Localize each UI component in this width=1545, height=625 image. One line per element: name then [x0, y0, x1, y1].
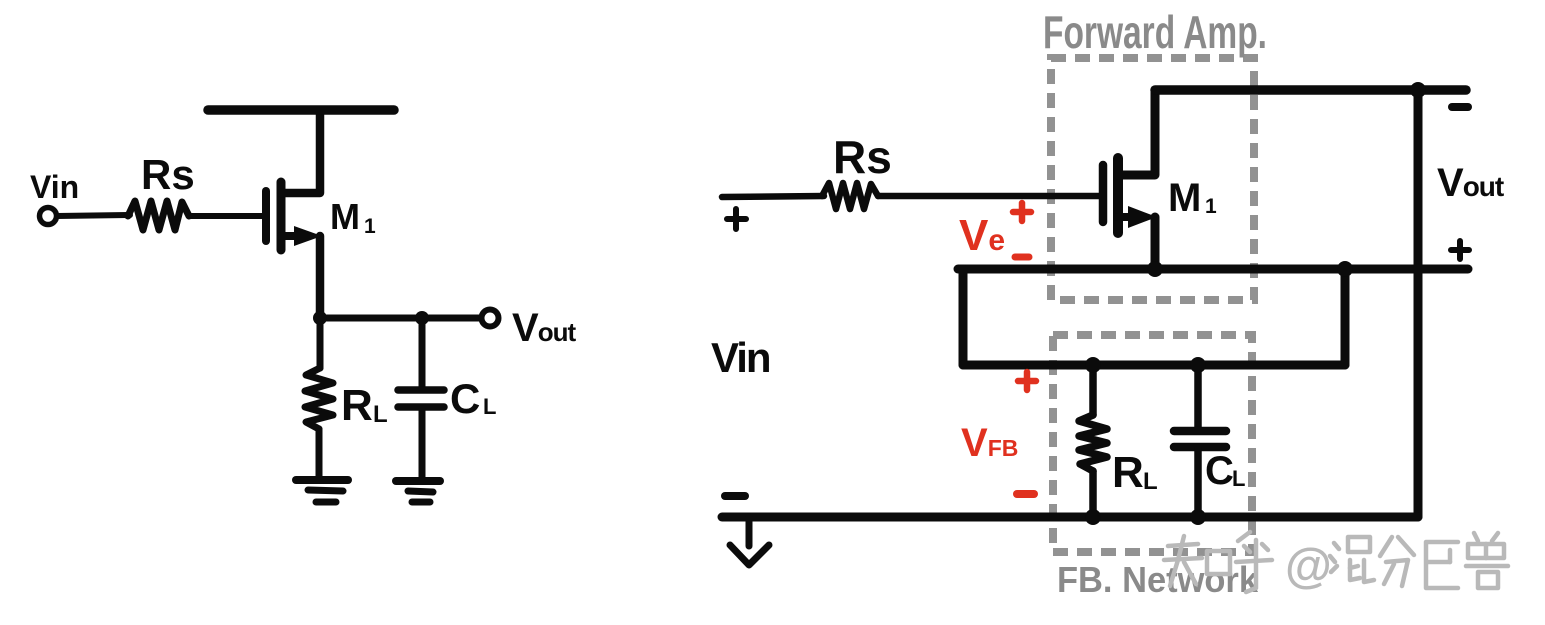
svg-text:L: L: [483, 394, 496, 419]
svg-text:R: R: [341, 381, 373, 430]
svg-text:1: 1: [1205, 195, 1217, 218]
svg-text:L: L: [373, 401, 388, 428]
svg-text:Rs: Rs: [141, 151, 195, 198]
svg-text:1: 1: [364, 215, 376, 238]
svg-text:C: C: [1205, 449, 1234, 493]
svg-text:Forward Amp.: Forward Amp.: [1043, 6, 1267, 58]
svg-text:Vin: Vin: [30, 169, 79, 205]
svg-text:R: R: [1112, 448, 1144, 497]
svg-text:L: L: [1143, 468, 1158, 495]
svg-text:Rs: Rs: [833, 131, 892, 183]
svg-text:L: L: [1232, 466, 1245, 491]
svg-text:M: M: [330, 196, 360, 237]
svg-text:Vin: Vin: [711, 334, 770, 381]
svg-text:M: M: [1168, 176, 1201, 220]
svg-text:C: C: [450, 375, 480, 422]
svg-text:@: @: [1285, 540, 1332, 593]
